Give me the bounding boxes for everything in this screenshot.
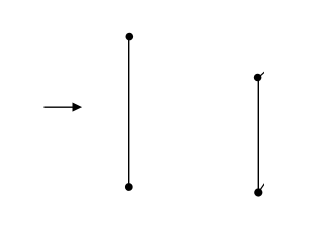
wire: right graph vertical edge <box>257 78 259 193</box>
node: right graph bottom vertex <box>254 188 262 196</box>
wire: left graph edge <box>128 37 130 187</box>
wire: right graph bottom diagonal edge (clipped at image edge) <box>258 183 264 192</box>
node: right graph top vertex <box>254 74 262 82</box>
node: left graph bottom vertex <box>125 183 133 191</box>
node: left graph top vertex <box>126 33 134 41</box>
arrow (mapping arrow) <box>43 103 82 112</box>
wire: right graph top diagonal edge (clipped at image edge) <box>259 71 265 77</box>
